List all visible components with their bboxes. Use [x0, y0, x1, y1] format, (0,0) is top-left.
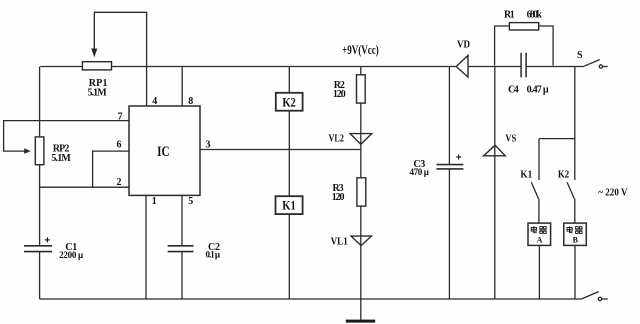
- wire relay coil K1 to ground bus: [288, 214, 290, 299]
- wire top loop RP1 wiper to IC pin 4: [94, 12, 146, 106]
- wire ground bus to earth symbol: [360, 299, 362, 320]
- wire +9V bus to C3 top plate: [448, 67, 450, 165]
- wire left rail bus to RP2 top: [39, 67, 41, 137]
- ground symbol: [346, 320, 375, 323]
- wire IC pin 5 to C2 top plate: [181, 195, 183, 245]
- wire K contacts crossbar: [539, 138, 575, 140]
- svg-text:120: 120: [332, 192, 345, 203]
- wire IC pin 2 to RP2 bottom rail: [40, 186, 129, 188]
- switch S output stub: [603, 66, 608, 68]
- wire +9V bus segment left of RP1: [40, 66, 82, 68]
- capacitor C4 plates: [521, 53, 526, 78]
- wire VS anode to ground bus: [494, 145, 496, 299]
- svg-text:S: S: [577, 50, 583, 61]
- wire +9V bus VD cathode to C4 left plate: [468, 66, 521, 68]
- resistor R3 body: [357, 178, 366, 206]
- svg-text:470 µ: 470 µ: [409, 167, 429, 177]
- svg-text:120: 120: [333, 89, 346, 100]
- svg-text:VL2: VL2: [329, 134, 344, 145]
- wire R3 to VL1: [360, 206, 362, 246]
- switch S blade: [583, 60, 600, 67]
- capacitor C1 polarity plus: [45, 237, 50, 242]
- svg-text:VD: VD: [457, 40, 470, 51]
- resistor R2 body: [357, 75, 366, 103]
- svg-text:8: 8: [188, 96, 193, 107]
- wire IC pin 1 to ground bus: [145, 195, 147, 299]
- svg-text:680k: 680k: [527, 10, 543, 21]
- wire C4 right plate to switch S pivot: [526, 66, 582, 68]
- appliance B glyphs 电器 B: [567, 226, 582, 233]
- wire C2 bottom plate to ground bus: [181, 252, 183, 299]
- wire IC pin 3 net to VL2 cathode: [200, 149, 361, 151]
- wire C1 bottom plate to ground bus: [39, 252, 41, 299]
- svg-text:IC: IC: [157, 144, 170, 160]
- wire R1 parallel loop: [495, 26, 510, 66]
- label C3: [409, 159, 429, 177]
- label R2: [333, 80, 346, 100]
- wire +9V bus to R2: [360, 67, 362, 75]
- svg-text:B: B: [573, 236, 579, 245]
- capacitor C2 plates: [168, 246, 194, 252]
- wire C4 node to VS cathode: [494, 67, 496, 146]
- svg-text:4: 4: [152, 96, 157, 107]
- RP1 wiper arrowhead: [91, 49, 97, 58]
- label C2: [206, 242, 221, 260]
- wire R2 to VL2: [360, 103, 362, 144]
- label R3: [332, 183, 345, 203]
- svg-text:K2: K2: [558, 169, 569, 180]
- wire K2 contact to appliance B: [574, 199, 576, 223]
- capacitor C1 plates: [24, 246, 52, 252]
- wire switch S branch down to K contacts: [574, 67, 576, 181]
- svg-text:6: 6: [117, 140, 122, 151]
- wire C3 bottom plate to ground bus: [448, 169, 450, 299]
- wire left rail RP2 bottom to C1 top plate: [39, 165, 41, 246]
- LED VL1 triangle: [351, 236, 371, 246]
- svg-text:C4: C4: [508, 84, 519, 95]
- IC U1 body: [129, 106, 200, 195]
- switch S contact circle: [599, 65, 602, 68]
- svg-text:A: A: [537, 236, 543, 245]
- appliance A box: [528, 223, 551, 245]
- capacitor C3 polarity plus: [456, 155, 461, 160]
- label RP1: [87, 78, 107, 99]
- label C4: [508, 84, 549, 95]
- svg-text:K2: K2: [282, 95, 296, 110]
- relay coil K1 body: [276, 196, 303, 214]
- svg-text:0.47 µ: 0.47 µ: [527, 84, 549, 95]
- wire appliance B to bottom bus: [574, 245, 576, 299]
- svg-text:VL1: VL1: [331, 236, 348, 247]
- svg-text:2: 2: [117, 177, 122, 188]
- resistor RP1 body: [82, 62, 111, 70]
- wire pin 3 net to relay coil K1: [288, 150, 290, 197]
- relay coil K2 body: [276, 93, 303, 111]
- svg-text:R1: R1: [504, 10, 515, 21]
- RP2 wiper arrowhead: [24, 148, 31, 153]
- svg-text:K1: K1: [520, 169, 532, 180]
- resistor R1 body: [509, 23, 538, 30]
- svg-text:K1: K1: [282, 197, 296, 212]
- svg-text:~ 220 V: ~ 220 V: [598, 188, 628, 199]
- capacitor C3 plates: [436, 165, 463, 169]
- svg-text:1: 1: [152, 196, 157, 207]
- wire K1 contact to appliance A: [538, 199, 540, 223]
- label R1: [504, 10, 542, 21]
- wire K1 contact upper stub: [538, 139, 540, 180]
- svg-text:7: 7: [118, 112, 123, 123]
- wire VL2 anode to pin3 net and R3: [360, 144, 362, 177]
- svg-text:5: 5: [188, 196, 193, 207]
- diode VD triangle: [456, 55, 468, 77]
- wire +9V bus RP1 to VD anode: [112, 66, 457, 68]
- svg-text:0.1 µ: 0.1 µ: [206, 250, 221, 260]
- svg-text:VS: VS: [505, 134, 516, 145]
- switch contact K1 blade: [531, 182, 538, 198]
- appliance A glyphs 电器 A: [531, 226, 546, 233]
- label C1: [59, 242, 84, 260]
- appliance B box: [564, 223, 587, 245]
- potentiometer RP2 body: [35, 137, 44, 165]
- switch contact K2 blade: [567, 182, 574, 198]
- svg-text:5.1M: 5.1M: [87, 88, 107, 99]
- svg-text:5.1M: 5.1M: [51, 153, 71, 164]
- wire relay coil K2 to pin 3 net: [288, 111, 290, 150]
- wire ground bottom bus: [40, 298, 582, 300]
- label RP2: [51, 143, 71, 164]
- wire IC pin 8 to +9V bus: [181, 67, 183, 107]
- bottom switch output stub: [602, 298, 608, 300]
- svg-text:+9V(Vcc): +9V(Vcc): [342, 42, 379, 57]
- svg-text:2200 µ: 2200 µ: [59, 250, 84, 260]
- wire R1 loop right leg: [539, 26, 553, 66]
- wire IC pin 6 down to pin 2 net: [93, 151, 129, 187]
- diode VS triangle: [484, 145, 506, 156]
- wire IC pin 7 to RP2 wiper: [4, 121, 129, 152]
- bottom switch contact circle: [598, 297, 601, 300]
- bottom switch blade: [581, 292, 598, 299]
- wire VL1 anode to ground bus: [360, 246, 362, 299]
- wire +9V bus to relay coil K2: [288, 67, 290, 93]
- svg-text:3: 3: [206, 139, 211, 150]
- LED VL2 triangle: [350, 134, 372, 145]
- wire appliance A to bottom bus: [538, 245, 540, 299]
